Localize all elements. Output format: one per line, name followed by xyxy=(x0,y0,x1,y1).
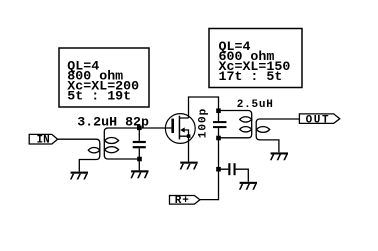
svg-text:IN: IN xyxy=(37,134,50,146)
svg-text:100p: 100p xyxy=(198,108,210,138)
svg-text:3.2uH 82p: 3.2uH 82p xyxy=(77,115,149,130)
svg-text:2.5uH: 2.5uH xyxy=(237,99,274,111)
svg-text:R+: R+ xyxy=(175,195,190,207)
svg-text:5t : 19t: 5t : 19t xyxy=(67,88,131,103)
svg-text:17t : 5t: 17t : 5t xyxy=(219,69,283,84)
svg-text:OUT: OUT xyxy=(306,114,331,126)
